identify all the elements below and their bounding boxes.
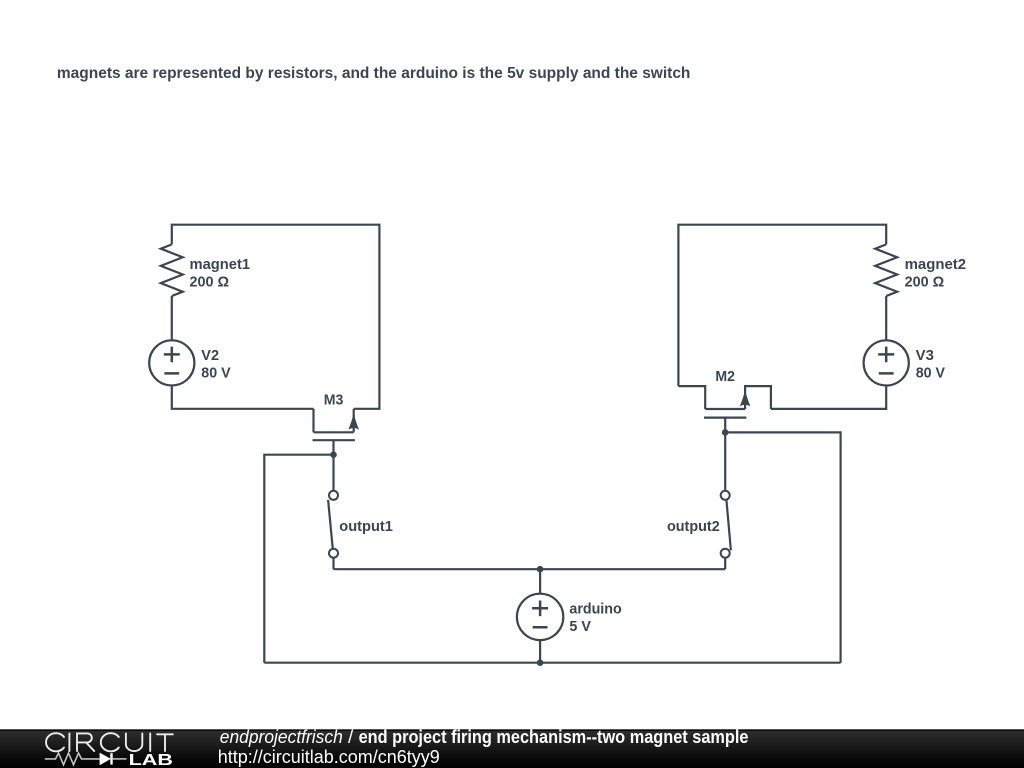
wire gate M3 to left drop [264,455,333,663]
svg-text:80 V: 80 V [201,366,230,382]
svg-text:output2: output2 [667,519,720,535]
svg-text:LAB: LAB [129,752,173,768]
label V2 value [201,348,230,382]
svg-text:M2: M2 [715,369,735,385]
svg-text:200 Ω: 200 Ω [190,275,230,291]
junction node arduino minus [537,659,544,666]
wire resistor to V3 [885,296,887,340]
voltage source arduino [517,569,563,663]
switch output1 [328,455,338,570]
wire gate M2 to right drop [725,432,840,662]
label magnet2 value [905,257,967,291]
svg-text:200 Ω: 200 Ω [905,275,945,291]
wire V3 to M2 source side [771,386,886,409]
svg-text:http://circuitlab.com/cn6tyy9: http://circuitlab.com/cn6tyy9 [218,747,440,767]
label V3 value [916,348,945,382]
svg-text:magnet1: magnet1 [190,257,251,273]
CircuitLab logo [45,733,173,768]
wire bottom rail [264,662,840,664]
wire V2 to M3 drain [172,386,314,409]
transistor M2 [678,386,771,432]
junction node gate M2 / output2 [722,429,729,436]
svg-text:arduino: arduino [569,602,621,618]
wire right loop left top [678,225,886,386]
voltage source V3 [864,340,909,385]
junction node gate M3 / output1 [330,451,337,458]
resistor magnet1 [161,244,183,296]
transistor M3 [313,409,360,455]
svg-text:80 V: 80 V [916,366,945,382]
svg-text:V2: V2 [201,348,219,364]
switch output2 [721,432,731,569]
svg-text:M3: M3 [324,393,344,409]
wire left loop top and right side [172,225,380,409]
svg-text:V3: V3 [916,348,934,364]
svg-text:magnet2: magnet2 [905,257,967,273]
svg-text:magnets are represented by res: magnets are represented by resistors, an… [57,65,691,82]
wire resistor to V2 [171,296,173,340]
footer bar [0,729,1024,768]
wire switch rail [334,568,726,570]
voltage source V2 [149,340,194,385]
label magnet1 value [190,257,251,291]
svg-text:5 V: 5 V [569,619,591,635]
junction node arduino plus [537,566,544,573]
svg-text:output1: output1 [339,519,393,535]
svg-text:endprojectfrisch / end project: endprojectfrisch / end project firing me… [220,727,749,747]
label arduino value [569,602,621,636]
resistor magnet2 [875,244,897,296]
